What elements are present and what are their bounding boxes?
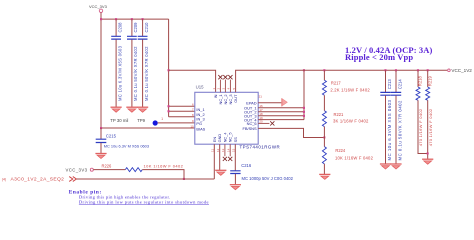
svg-text:3K 1/16W F 0402: 3K 1/16W F 0402 <box>333 118 369 123</box>
svg-text:(4): (4) <box>2 177 6 181</box>
svg-text:MC 0.1u 50V/K X7R 0402: MC 0.1u 50V/K X7R 0402 <box>144 46 149 101</box>
pin labels U15 right <box>243 101 258 132</box>
svg-text:MC 0.1u 50V/K X7R 0402: MC 0.1u 50V/K X7R 0402 <box>398 100 403 161</box>
svg-text:2.2K 1/16W F 0402: 2.2K 1/16W F 0402 <box>330 88 370 93</box>
junction bleeder join <box>427 152 429 154</box>
wire OUT y115.8 <box>258 115 304 117</box>
op-amp U15 regulator body <box>195 85 258 145</box>
svg-text:TP9: TP9 <box>137 118 145 123</box>
svg-text:TP 30 mil: TP 30 mil <box>110 118 128 123</box>
svg-text:C214: C214 <box>398 79 403 90</box>
svg-text:MC 0.1u 50V/K X7R 0402: MC 0.1u 50V/K X7R 0402 <box>133 46 138 101</box>
ground GND pin <box>215 170 226 175</box>
svg-text:VCC_3V3: VCC_3V3 <box>66 167 88 172</box>
junction BIAS C215 <box>100 127 102 129</box>
svg-text:470 1/16W F 0402: 470 1/16W F 0402 <box>428 108 433 146</box>
ground C210 <box>137 107 148 112</box>
svg-text:MC 10u 6.3V M X6S 0603: MC 10u 6.3V M X6S 0603 <box>104 144 149 149</box>
svg-text:Ripple < 20m Vpp: Ripple < 20m Vpp <box>345 52 413 62</box>
wire OUT y111.8 <box>258 111 304 113</box>
svg-text:C210: C210 <box>144 22 149 33</box>
ground C209 <box>126 107 137 112</box>
value label C216 <box>242 176 294 181</box>
arrow EPAD <box>282 98 288 106</box>
wire C210 lower <box>142 40 144 108</box>
junction OUT bus y111.8 <box>303 111 305 113</box>
value label R221 <box>333 118 369 123</box>
svg-text:VCC_3V3: VCC_3V3 <box>89 4 108 9</box>
junction rail C214 <box>395 69 397 71</box>
svg-text:R217: R217 <box>331 80 342 85</box>
no-connect stub bottom x230.2 <box>228 144 232 161</box>
wire PG to TP9 <box>158 122 195 124</box>
junction rail C208 <box>115 18 117 20</box>
capacitor C215 <box>96 133 117 142</box>
svg-text:R218: R218 <box>418 76 423 87</box>
capacitor C209 <box>127 22 138 39</box>
svg-text:21: 21 <box>259 94 263 98</box>
junction rail R219 <box>427 69 429 71</box>
wire C213 upper <box>385 70 387 92</box>
wire C209 upper <box>131 19 133 36</box>
svg-text:C209: C209 <box>133 22 138 33</box>
value label C208 <box>117 45 122 101</box>
resistor R224 <box>322 147 346 164</box>
power symbol VCC_1V2 <box>448 68 473 73</box>
value label R217 <box>330 88 370 93</box>
capacitor C216 <box>230 163 252 173</box>
no-connect stub right <box>258 121 274 125</box>
wire IN_1 <box>169 105 195 107</box>
svg-text:TPS74401RGWR: TPS74401RGWR <box>240 144 281 149</box>
resistor R226 <box>102 163 143 171</box>
wire EN net <box>77 178 215 180</box>
junction OUT bus y107.8 <box>303 107 305 109</box>
pin number 1 TP9 <box>161 117 163 121</box>
annotation output spec <box>345 45 433 62</box>
wire rail to R218 <box>417 70 419 87</box>
svg-text:C208: C208 <box>117 22 122 33</box>
svg-text:EN: EN <box>212 137 217 143</box>
junction IN_1 <box>168 105 170 107</box>
value label C210 <box>144 46 149 101</box>
resistor R221 <box>322 111 344 127</box>
wire C214 lower <box>395 96 397 164</box>
net label A3C0_1V2_2A_SEQ2 <box>2 177 64 183</box>
junction EN net <box>183 178 185 180</box>
capacitor C208 <box>111 22 122 39</box>
annotation enable note <box>69 189 209 204</box>
part number TPS74401RGWR <box>240 144 281 149</box>
power symbol VCC_3V3 enable <box>66 167 94 172</box>
wire R221 to node <box>323 127 325 147</box>
wire C215 lower <box>100 143 102 154</box>
wire VCC_3V3 input rail <box>101 18 169 20</box>
value label C209 <box>133 46 138 101</box>
pin labels U15 bottom <box>212 132 238 143</box>
pin numbers U15 left <box>190 103 194 129</box>
wire C210 upper <box>142 19 144 36</box>
pin labels U15 left <box>196 107 205 132</box>
test point TP9 <box>110 118 157 126</box>
svg-text:Driving this pin low puts the: Driving this pin low puts the regulator … <box>79 199 209 204</box>
wire R217 to R221 <box>323 95 325 110</box>
wire input vertical bus <box>168 19 170 117</box>
ground C216 <box>230 185 241 190</box>
svg-text:U15: U15 <box>196 85 204 90</box>
svg-text:C215: C215 <box>106 133 117 138</box>
svg-text:10K 1/16W F 0402: 10K 1/16W F 0402 <box>335 155 374 160</box>
pin number 21 EPAD <box>259 94 263 98</box>
svg-text:1: 1 <box>161 117 163 121</box>
svg-text:MC 10u 6.3V/M X5S 0603: MC 10u 6.3V/M X5S 0603 <box>387 99 392 160</box>
wire output rail VCC_1V2 <box>236 70 448 92</box>
svg-text:MC 1000p 50V J C0G 0402: MC 1000p 50V J C0G 0402 <box>242 176 294 181</box>
wire EN pin drop <box>213 144 215 179</box>
junction rail R218 <box>417 69 419 71</box>
wire SS to C216 <box>234 144 236 171</box>
value label R224 <box>335 155 374 160</box>
wire FB/SNS <box>258 128 324 137</box>
ground C214 <box>390 164 401 169</box>
wire rail to R219 <box>427 70 429 87</box>
svg-text:10: 10 <box>190 125 194 129</box>
wire BIAS <box>101 127 195 129</box>
wire R218 lower <box>418 100 428 153</box>
wire C208 lower <box>115 40 117 108</box>
pin numbers U15 right <box>259 104 263 124</box>
wire OUT bus vertical <box>303 70 305 119</box>
wire rail to R217 <box>323 70 325 80</box>
wire GND pin <box>219 144 221 170</box>
resistor R217 <box>322 80 341 95</box>
junction rail C209 <box>131 18 133 20</box>
wire OUT y107.8 <box>258 107 304 109</box>
power symbol VCC_3V3 <box>89 4 108 13</box>
wire R224 to ground <box>323 164 325 175</box>
value label R219 <box>428 108 433 146</box>
svg-text:NC_4: NC_4 <box>222 132 227 143</box>
no-connect stub top x225.4 <box>223 75 227 92</box>
svg-text:C216: C216 <box>241 163 252 168</box>
junction OUT bus y115.8 <box>303 115 305 117</box>
junction rail C210 <box>142 18 144 20</box>
wire IN_3 <box>169 116 195 118</box>
value label C213 <box>387 99 392 160</box>
svg-text:R221: R221 <box>334 112 345 117</box>
pin labels U15 top <box>213 94 238 105</box>
capacitor C210 <box>138 22 149 39</box>
resistor R218 <box>416 76 423 101</box>
wire C216 lower <box>234 174 236 185</box>
junction input branch <box>168 69 170 71</box>
pin numbers U15 bottom <box>211 148 236 152</box>
ground C208 <box>111 107 122 112</box>
value label R218 <box>418 108 423 146</box>
wire R226 to EN net <box>142 170 184 179</box>
ground C215 <box>95 154 106 159</box>
svg-text:A3C0_1V2_2A_SEQ2: A3C0_1V2_2A_SEQ2 <box>11 177 65 183</box>
value label C214 <box>398 100 403 161</box>
pin numbers U15 top <box>212 88 236 90</box>
svg-text:R226: R226 <box>102 163 113 168</box>
svg-text:C213: C213 <box>387 79 392 90</box>
ground divider <box>319 174 330 179</box>
svg-text:R224: R224 <box>335 148 346 153</box>
junction at rail x101 <box>100 18 102 20</box>
wire VCC_3V3 vertical <box>100 13 102 129</box>
value label C215 <box>104 144 149 149</box>
no-connect stub bottom x224.9 <box>223 144 227 161</box>
ground bleeder <box>422 159 433 164</box>
no-connect stub top x230.4 <box>228 75 232 92</box>
svg-text:SS: SS <box>233 137 238 143</box>
capacitor C213 <box>380 79 392 96</box>
wire input branch to IN pin <box>169 70 216 92</box>
junction FB divider <box>323 136 325 138</box>
svg-text:PG: PG <box>196 121 202 126</box>
wire IN_2 <box>169 110 195 112</box>
wire R219 lower <box>427 100 429 159</box>
wire EPAD <box>258 102 282 104</box>
svg-text:MC 10u 6.3V/M X5S 0603: MC 10u 6.3V/M X5S 0603 <box>117 45 122 101</box>
wire VCC to R226 <box>93 169 125 171</box>
junction rail C213 <box>384 69 386 71</box>
junction OUT bus y70.3 <box>303 69 305 71</box>
no-connect stub top x220.4 <box>218 75 222 92</box>
off-page connector A3C0_1V2_2A_SEQ2 <box>69 177 76 182</box>
svg-text:BIAS: BIAS <box>196 127 205 132</box>
junction rail R217 <box>323 69 325 71</box>
svg-text:R219: R219 <box>427 76 432 87</box>
value label R226 <box>144 164 184 169</box>
ground C213 <box>380 164 391 169</box>
wire C209 lower <box>131 40 133 108</box>
wire C213 lower <box>385 96 387 164</box>
svg-text:OUT: OUT <box>233 94 238 103</box>
svg-text:10K 1/16W F 0402: 10K 1/16W F 0402 <box>144 164 184 169</box>
wire C214 upper <box>395 70 397 92</box>
resistor R219 <box>426 76 433 101</box>
wire C215 upper <box>100 128 102 139</box>
svg-text:VCC_1V2: VCC_1V2 <box>451 68 472 73</box>
svg-text:FB/SNS: FB/SNS <box>243 126 257 131</box>
junction IN_2 <box>168 110 170 112</box>
capacitor C214 <box>391 79 403 96</box>
wire OUT y119.6 <box>258 119 304 121</box>
wire C208 upper <box>115 19 117 36</box>
svg-text:470 1/16W F 0402: 470 1/16W F 0402 <box>418 108 423 146</box>
